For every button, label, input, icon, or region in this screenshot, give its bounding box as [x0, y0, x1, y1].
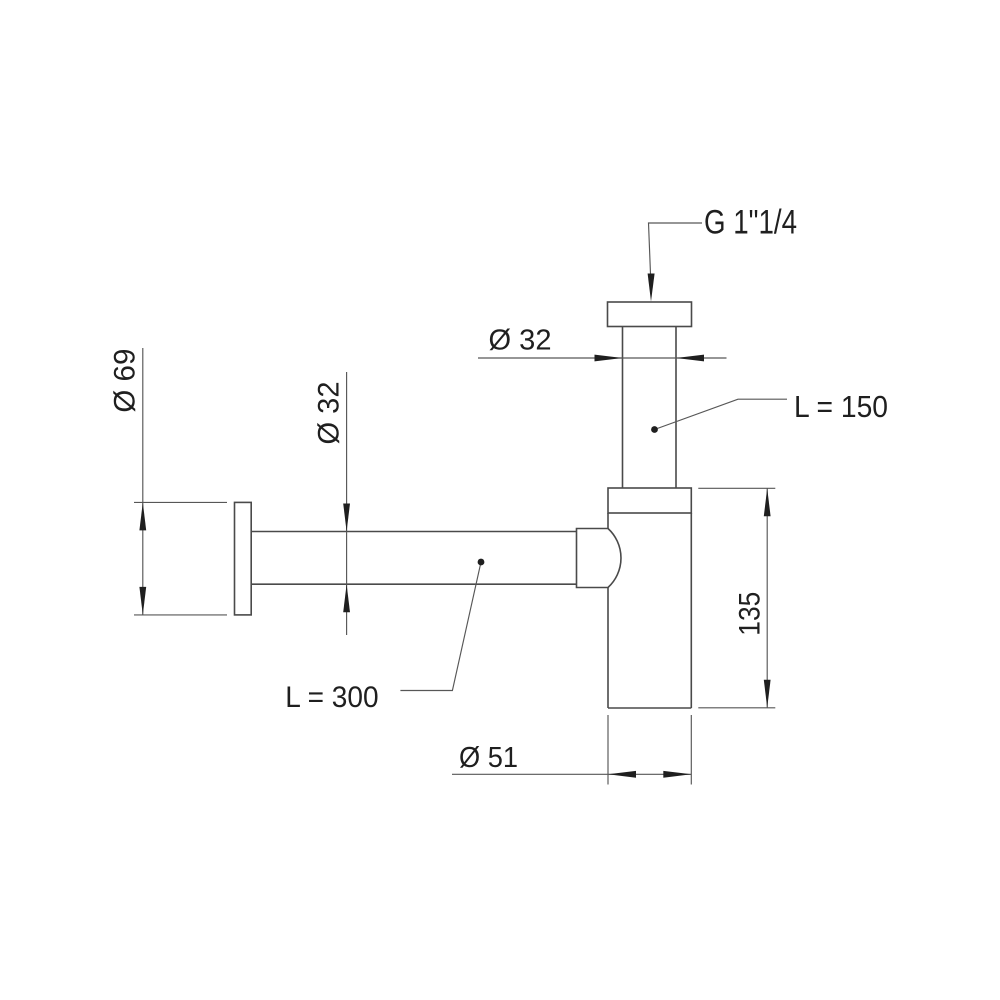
vertical pipe left edge — [622, 327, 624, 489]
pipe end fitting nut with rounded cap arc — [577, 529, 621, 588]
arrow down 135 — [764, 680, 771, 708]
wall flange plate — [235, 502, 252, 615]
arrow down diam32 left — [343, 504, 350, 532]
horizontal pipe top edge — [251, 531, 577, 533]
arrow down diam69 — [139, 587, 146, 615]
arrow left at pipe right (diam32 top) — [676, 355, 704, 362]
arrow down G inlet — [648, 274, 655, 302]
body collar — [608, 488, 691, 513]
dim line diam 51 — [452, 773, 691, 775]
dim 69 bottom extension line — [134, 614, 227, 616]
dim 51 right extension line — [690, 715, 692, 785]
svg-text:Ø 32: Ø 32 — [489, 325, 552, 357]
leader L=150 — [655, 399, 788, 429]
dim line diam 32 top — [478, 357, 727, 359]
body left edge upper segment — [607, 513, 609, 529]
leader L=300 — [400, 562, 481, 691]
arrow up diam69 — [139, 502, 146, 530]
svg-text:L = 150: L = 150 — [794, 389, 888, 424]
svg-text:135: 135 — [733, 592, 766, 636]
leader G 1"1/4 — [649, 223, 703, 274]
svg-text:Ø 69: Ø 69 — [108, 349, 141, 413]
body bottom edge — [608, 707, 691, 709]
body left edge lower segment — [607, 588, 609, 709]
svg-text:L = 300: L = 300 — [285, 681, 378, 714]
arrow right diam51 — [663, 771, 691, 778]
arrow right at pipe left (diam32 top) — [595, 355, 623, 362]
horizontal pipe bottom edge — [251, 583, 577, 585]
svg-text:G 1"1/4: G 1"1/4 — [704, 204, 797, 242]
dim 69 top extension line — [134, 501, 227, 503]
svg-text:Ø 51: Ø 51 — [459, 742, 518, 774]
svg-text:Ø 32: Ø 32 — [313, 382, 346, 445]
leader dot L=150 — [651, 426, 658, 433]
dim 135 top extension line — [698, 487, 775, 489]
dim 51 left extension line — [607, 715, 609, 785]
arrow up diam32 left — [343, 584, 350, 612]
dim line 135 — [766, 488, 768, 708]
dim line diam 32 left — [346, 372, 348, 635]
dim 135 bottom extension line — [698, 707, 775, 709]
arrow left diam51 — [608, 771, 636, 778]
vertical pipe right edge — [675, 327, 677, 489]
arrow up 135 — [764, 488, 771, 516]
leader dot L=300 — [478, 559, 485, 566]
top inlet flange — [608, 302, 692, 327]
body right edge — [690, 513, 692, 708]
dim line diam 69 — [142, 348, 144, 615]
